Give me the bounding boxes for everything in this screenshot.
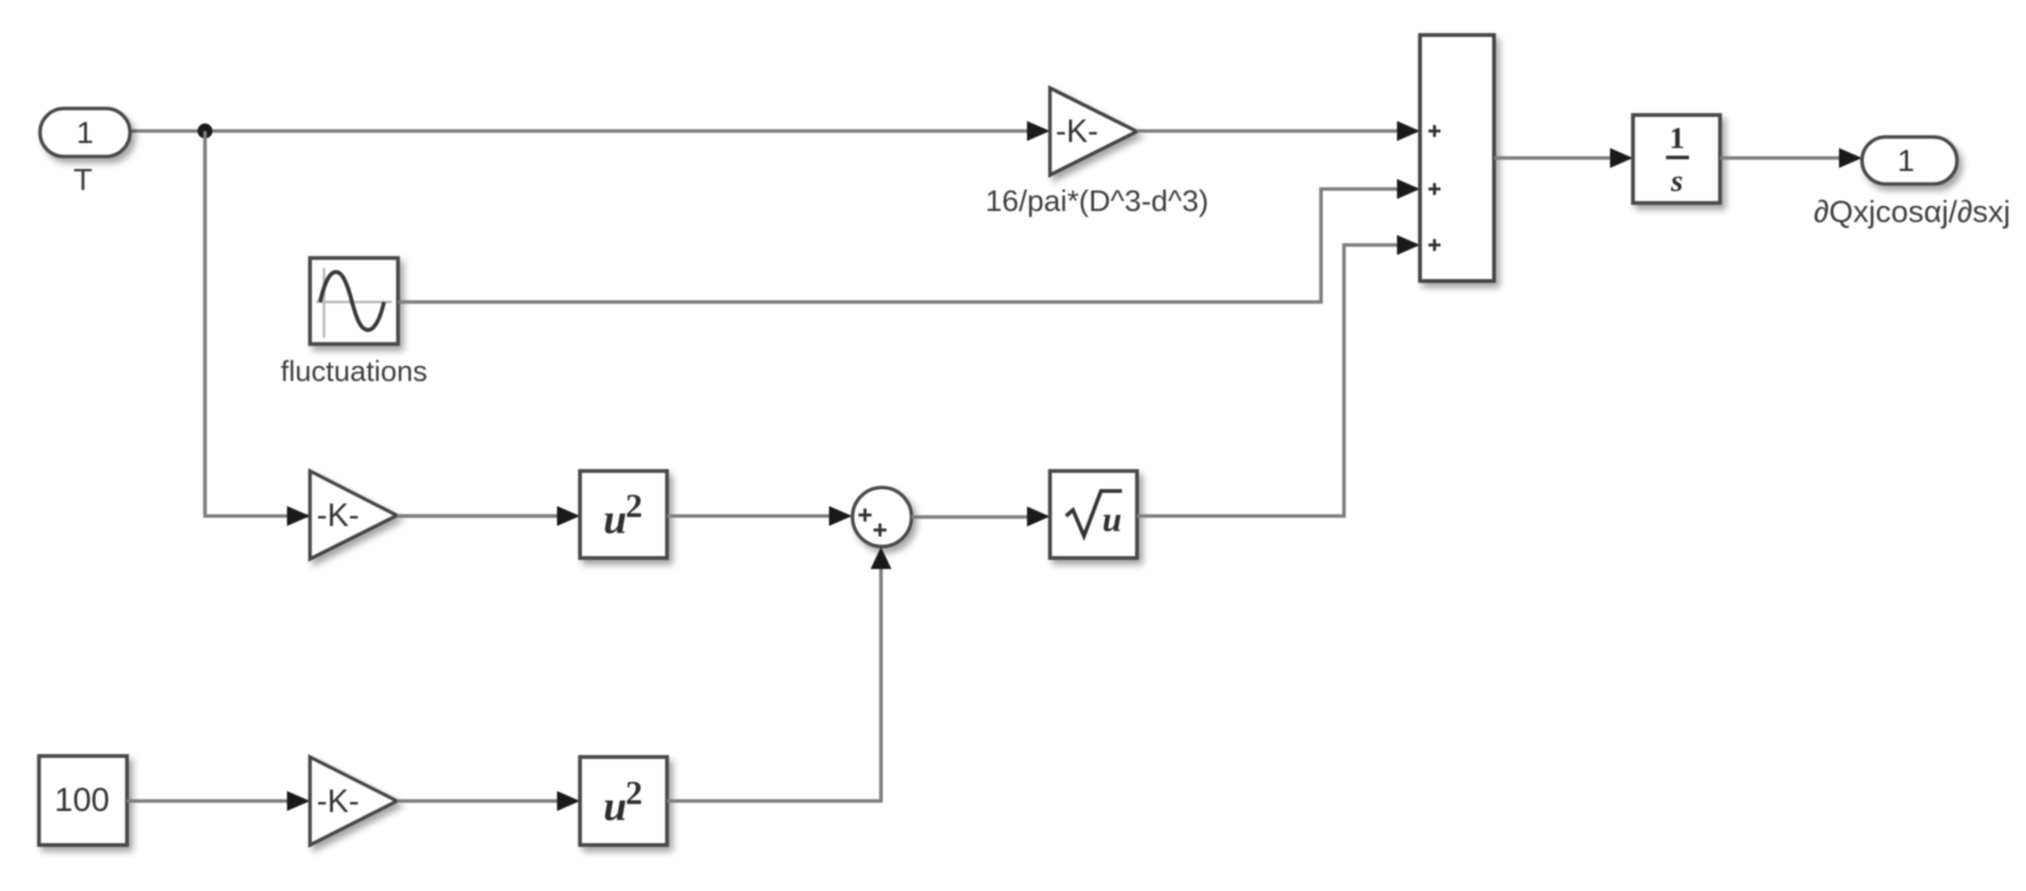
inport 1 (T)	[40, 109, 130, 157]
svg-text:∂Qxjcosαj/∂sxj: ∂Qxjcosαj/∂sxj	[1814, 194, 2011, 229]
wire: gain K2 to square block 1	[397, 506, 580, 526]
svg-text:u: u	[1102, 500, 1121, 539]
svg-text:u: u	[603, 497, 626, 543]
svg-text:16/pai*(D^3-d^3): 16/pai*(D^3-d^3)	[985, 185, 1208, 218]
wire: sum circle to sqrt block	[912, 507, 1051, 527]
svg-text:-K-: -K-	[317, 783, 360, 819]
svg-text:u: u	[603, 784, 626, 830]
wire: junction down to gain K2	[205, 131, 560, 526]
svg-text:-K-: -K-	[1056, 113, 1099, 149]
svg-text:2: 2	[626, 488, 643, 525]
sine wave block (fluctuations)	[310, 258, 398, 344]
wire: integrator to outport	[1720, 148, 1862, 168]
constant block 100	[39, 756, 127, 845]
gain block K3 (-K-)	[310, 757, 397, 845]
svg-text:s: s	[1670, 163, 1683, 198]
wire: gain K1 to sum input 1	[1137, 121, 1420, 141]
svg-text:1: 1	[1669, 120, 1685, 155]
wire: inport T to gain K1	[130, 121, 1050, 141]
svg-text:-K-: -K-	[317, 497, 360, 533]
svg-text:100: 100	[54, 781, 109, 818]
integrator block 1/s	[1633, 115, 1720, 203]
svg-text:2: 2	[626, 775, 643, 812]
svg-text:T: T	[74, 162, 93, 197]
outport 1	[1862, 137, 1957, 184]
sum circle (Add1)	[853, 488, 912, 547]
wire: fluctuations to sum input 2	[398, 179, 1420, 302]
wire: gain K3 to square block 2	[397, 791, 580, 811]
svg-text:1: 1	[76, 115, 93, 150]
wire: constant 100 to gain K3	[127, 791, 310, 811]
node junction on T wire	[198, 124, 213, 139]
svg-text:fluctuations: fluctuations	[281, 356, 428, 388]
math function block u^2 (2)	[580, 757, 667, 845]
wire: u^2 (1) to sum circle	[667, 506, 852, 526]
svg-text:1: 1	[1897, 143, 1914, 178]
math function block sqrt(u)	[1050, 471, 1137, 558]
sum block (Add)	[1420, 35, 1494, 281]
gain block K1 (-K-)	[1050, 88, 1137, 175]
wire: sum block to integrator	[1494, 148, 1633, 168]
math function block u^2 (1)	[580, 471, 667, 558]
wire: u^2 (2) up to sum circle bottom input	[667, 547, 892, 801]
gain block K2 (-K-)	[310, 471, 397, 559]
wire: sqrt(u) to sum input 3	[1137, 235, 1420, 516]
